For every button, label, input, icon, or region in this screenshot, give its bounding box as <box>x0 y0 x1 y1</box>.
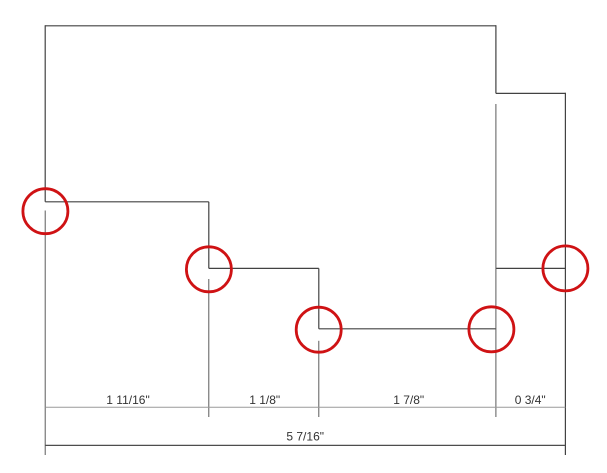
node marker circle 5 (right wall point) <box>543 246 588 291</box>
svg-text:0 3/4": 0 3/4" <box>515 393 546 407</box>
value label 1 11/16" <box>106 393 149 407</box>
wire step 1 to step 2 riser <box>208 202 210 269</box>
node marker circle 2 (step 1/2 corner) <box>186 247 231 292</box>
wire step 3 top surface <box>319 328 496 330</box>
value label 1 7/8" <box>393 393 424 407</box>
node marker circle 4 (step 3/4 corner) <box>469 307 514 352</box>
wire step 4 top surface <box>496 267 566 269</box>
svg-text:1 1/8": 1 1/8" <box>249 393 280 407</box>
wire step 2 top surface <box>209 267 319 269</box>
value label 5 7/16" <box>286 430 324 444</box>
wire step 2 to step 3 riser <box>318 268 320 328</box>
value label 1 1/8" <box>249 393 280 407</box>
wire extension line at left x=45 <box>44 211 46 456</box>
node marker circle 3 (step 2/3 corner) <box>296 307 341 352</box>
wire top right notch horizontal <box>496 92 566 94</box>
wire extension line x=209 <box>208 279 210 417</box>
svg-text:5 7/16": 5 7/16" <box>286 430 324 444</box>
wire left edge of profile <box>44 25 46 202</box>
wire right edge of profile <box>564 93 566 455</box>
svg-text:1 11/16": 1 11/16" <box>106 393 149 407</box>
node marker circle 1 (left wall point) <box>23 189 68 234</box>
value label 0 3/4" <box>515 393 546 407</box>
wire dimension line segments <box>45 406 565 408</box>
wire step 1 top surface <box>45 201 209 203</box>
wire extension line x=319 <box>318 341 320 417</box>
wire extension line x=496 <box>495 104 497 417</box>
wire top right notch vertical <box>495 25 497 93</box>
wire top edge of profile <box>45 25 496 27</box>
svg-text:1 7/8": 1 7/8" <box>393 393 424 407</box>
wire overall dimension line <box>45 444 565 446</box>
